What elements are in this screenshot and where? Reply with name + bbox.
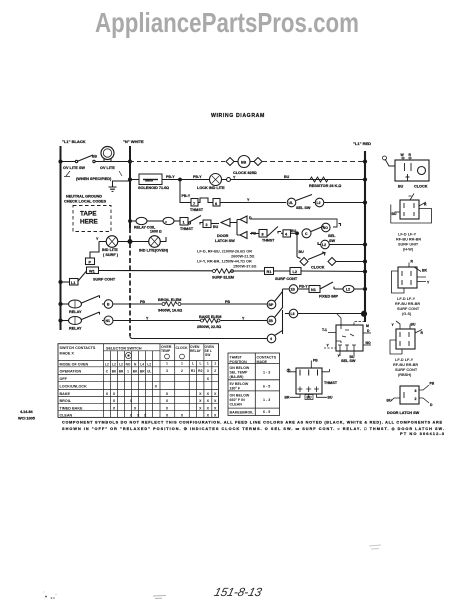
svg-text:X: X [166, 407, 169, 411]
svg-text:SELECTOR SWITCH: SELECTOR SWITCH [106, 347, 142, 351]
svg-text:X: X [155, 385, 158, 389]
svg-text:3800: 3800 [145, 179, 153, 183]
clock symbol overtemp [165, 354, 170, 359]
lamp OV LITE [101, 147, 114, 160]
svg-text:L3: L3 [291, 312, 295, 316]
tape here dashed box [73, 206, 111, 232]
contact box 4 [283, 230, 291, 237]
svg-text:L2: L2 [119, 362, 123, 366]
svg-text:SURF ELEM: SURF ELEM [212, 276, 234, 280]
svg-text:C: C [305, 232, 308, 236]
surf unit top blade [409, 194, 415, 201]
svg-text:X: X [113, 399, 116, 403]
wire hook L2 [318, 242, 321, 245]
svg-text:RF-BU RR-BR: RF-BU RR-BR [395, 302, 420, 306]
wire Y drop to P [90, 242, 99, 259]
svg-text:2600W-21.5Ω: 2600W-21.5Ω [231, 255, 255, 259]
svg-text:POSITION: POSITION [230, 360, 248, 364]
svg-text:CLOCK: CLOCK [176, 346, 189, 350]
pin NO right [363, 344, 371, 346]
svg-text:THMST: THMST [262, 239, 275, 243]
smudge right upper [369, 545, 381, 549]
svg-text:PB-Y: PB-Y [166, 175, 175, 179]
svg-text:PT NO 306412-3: PT NO 306412-3 [400, 431, 445, 436]
svg-text:1: 1 [181, 362, 183, 366]
svg-text:LF-Y, RR-BR, 1250W-44.7Ω OR: LF-Y, RR-BR, 1250W-44.7Ω OR [197, 260, 252, 264]
relay 2 [69, 317, 82, 325]
wire n bus to coil [130, 220, 136, 222]
gs top pin R [408, 263, 410, 268]
terminal 1B [289, 285, 298, 294]
inner bottom pins [298, 387, 320, 393]
svg-text:R: R [411, 260, 414, 264]
label surf cont rbsh text [393, 358, 418, 377]
thermostat box 1 [180, 218, 188, 226]
terminal L2 [315, 198, 324, 207]
clock symbol selector [126, 353, 132, 359]
switch blade BP to corner [275, 292, 283, 302]
clock dashed row y161.5 [130, 156, 367, 168]
terminal B [104, 300, 113, 309]
svg-text:3: 3 [415, 389, 417, 393]
svg-text:D: D [430, 403, 433, 407]
svg-text:L2: L2 [293, 270, 297, 274]
svg-text:6 - 5: 6 - 5 [263, 385, 270, 389]
wire surf elem main [99, 271, 366, 272]
svg-text:BAKE: BAKE [60, 392, 71, 396]
clock diamonds row y261 [297, 233, 367, 265]
diamond clock lower right [328, 258, 336, 266]
svg-text:CLOCK: CLOCK [414, 185, 428, 189]
svg-text:X: X [199, 392, 202, 396]
label surf unit text [396, 233, 421, 252]
svg-text:LF-D LF-Y: LF-D LF-Y [395, 358, 414, 362]
thermostat table text [230, 356, 277, 415]
junction L1 bus [59, 280, 62, 283]
clock inner pins [405, 163, 412, 181]
table horizontal rules [58, 361, 219, 411]
wire D upper to NO [250, 219, 337, 227]
svg-text:BU: BU [291, 229, 297, 233]
switch OV LITE SW blade [77, 155, 93, 162]
junction resistor right bus [363, 178, 366, 181]
svg-text:4: 4 [285, 233, 288, 237]
gs left bracket [392, 271, 405, 293]
dls pin 2 blade [419, 398, 429, 403]
svg-text:(G-S): (G-S) [402, 312, 412, 316]
svg-text:SEL TEMP: SEL TEMP [230, 371, 249, 375]
svg-text:UL: UL [289, 201, 294, 205]
svg-text:BR: BR [285, 396, 290, 400]
svg-text:L2: L2 [322, 243, 326, 247]
svg-text:1500W-37.6Ω: 1500W-37.6Ω [233, 265, 257, 269]
svg-text:SOLENOID 71.6Ω: SOLENOID 71.6Ω [138, 186, 169, 190]
svg-text:X: X [130, 399, 133, 403]
svg-text:OV LITE SW: OV LITE SW [63, 166, 85, 170]
diamond clock terminal right [254, 158, 262, 166]
door latch sw component [391, 385, 429, 404]
pin right [322, 369, 330, 372]
thermostat contact 8 [259, 230, 267, 238]
wire L1 to bus [61, 281, 70, 283]
svg-text:L: L [199, 362, 201, 366]
svg-text:NEUTRAL GROUND: NEUTRAL GROUND [66, 195, 102, 199]
pin R [408, 157, 412, 161]
svg-text:BK: BK [422, 269, 427, 273]
junction surf elem bus [363, 270, 366, 273]
terminal L2 sel [321, 240, 330, 249]
junction bake bus [59, 319, 62, 322]
svg-text:RELAY: RELAY [69, 327, 82, 331]
svg-text:DOOR: DOOR [217, 234, 229, 238]
svg-text:1: 1 [207, 362, 209, 366]
svg-text:BU: BU [299, 250, 305, 254]
svg-text:"L1" RED: "L1" RED [353, 141, 371, 146]
svg-text:(WHEN SPECIFIED): (WHEN SPECIFIED) [76, 177, 112, 181]
surf cont RBSH component [390, 321, 422, 354]
solenoid box [139, 174, 162, 185]
terminal BP [267, 300, 276, 309]
wire surf lamp leads [99, 241, 130, 243]
selector switch header underline [103, 350, 160, 352]
contact box N1 fixed [309, 286, 320, 293]
junction L3 bus big [361, 311, 366, 316]
svg-text:BR: BR [140, 369, 145, 373]
svg-text:BU: BU [213, 225, 219, 229]
switch sel sw blade [296, 195, 312, 201]
svg-text:OV LITE: OV LITE [100, 166, 115, 170]
solenoid row y179.5 [128, 174, 366, 186]
rbsh inner [400, 332, 409, 346]
table row labels [60, 362, 89, 417]
svg-text:N1: N1 [311, 288, 316, 292]
svg-text:X: X [113, 392, 116, 396]
table X marks [106, 377, 217, 418]
inner marks [342, 330, 354, 337]
svg-text:X: X [207, 414, 210, 418]
svg-text:2B: 2B [269, 319, 274, 323]
svg-text:AppliancePartsPros.com: AppliancePartsPros.com [95, 7, 359, 38]
svg-text:X: X [207, 377, 210, 381]
svg-text:X: X [214, 407, 217, 411]
svg-text:P: P [89, 261, 92, 265]
svg-text:L: L [192, 362, 194, 366]
junction clock right bus [363, 160, 366, 163]
svg-text:SW: SW [329, 239, 336, 243]
surf unit loop wire [391, 205, 432, 224]
L3 row y314 [285, 309, 367, 318]
pin blade top [337, 314, 341, 329]
relay 1 [69, 300, 82, 308]
svg-text:SURF CONT: SURF CONT [395, 368, 418, 372]
svg-text:2: 2 [214, 369, 216, 373]
svg-text:R1: R1 [267, 270, 272, 274]
svg-text:(RBSH): (RBSH) [398, 373, 412, 377]
specks bottom left corner [45, 596, 47, 598]
svg-text:3: 3 [207, 369, 209, 373]
svg-text:PB: PB [430, 382, 435, 386]
resistor bake [201, 319, 204, 322]
resistor surf elem [213, 270, 216, 273]
svg-text:RELAY: RELAY [69, 310, 82, 314]
terminal small circle [227, 178, 231, 182]
svg-text:2: 2 [181, 369, 183, 373]
svg-text:TEMP: TEMP [161, 349, 171, 353]
gs blade BK [414, 267, 421, 272]
sel sw component box [324, 314, 371, 356]
svg-text:Y: Y [146, 317, 149, 321]
svg-text:WIRING DIAGRAM: WIRING DIAGRAM [211, 113, 265, 119]
junction clock2 bus [363, 260, 366, 263]
wire fixed to bus [354, 288, 365, 290]
fixed-8 row y233 [250, 226, 324, 238]
rbsh Y pin top left [396, 321, 400, 329]
svg-text:N: N [134, 362, 137, 366]
wire bake line [113, 320, 263, 322]
svg-text:660° F IN: 660° F IN [230, 398, 246, 402]
switch contact table grid [58, 344, 219, 418]
clock motor circle [418, 167, 426, 175]
wattage text block [197, 250, 257, 269]
svg-text:SURF CONT: SURF CONT [93, 278, 116, 282]
svg-text:3: 3 [166, 369, 168, 373]
surf unit R blade [419, 202, 426, 206]
svg-text:(BA-BR): (BA-BR) [230, 375, 245, 379]
svg-text:B: B [107, 303, 110, 307]
svg-text:TIMED BAKE: TIMED BAKE [60, 406, 83, 410]
svg-text:IND LITE: IND LITE [102, 248, 118, 252]
diamond clock terminal left [226, 158, 234, 166]
switch blade C sel [311, 226, 324, 232]
svg-text:1600 Ω: 1600 Ω [150, 230, 162, 234]
surf unit inner pins [404, 203, 414, 216]
svg-text:SURF CONT: SURF CONT [397, 307, 420, 311]
svg-text:ON BELOW: ON BELOW [230, 394, 250, 398]
svg-text:CLOCK: CLOCK [311, 266, 325, 270]
svg-text:LF-D, RF-BU, 2100W-26.6Ω OR: LF-D, RF-BU, 2100W-26.6Ω OR [197, 250, 252, 254]
svg-text:LF-D LF-Y: LF-D LF-Y [397, 297, 416, 301]
svg-text:L2: L2 [346, 288, 350, 292]
svg-text:8: 8 [262, 233, 264, 237]
svg-text:NO: NO [366, 341, 371, 345]
pin W [401, 157, 405, 161]
pin BU bottom mid [308, 394, 310, 397]
svg-text:IND LITE(OVEN): IND LITE(OVEN) [139, 249, 169, 253]
pin D right [363, 332, 371, 334]
svg-text:Y: Y [96, 237, 99, 241]
resistor RESISTOR 26K [310, 177, 328, 182]
svg-text:X: X [214, 414, 217, 418]
svg-text:BU: BU [307, 396, 312, 400]
wire clock row dashed [130, 161, 226, 163]
svg-text:X: X [166, 392, 169, 396]
switch blade 8 [268, 227, 279, 237]
clock symbol clockcol [180, 354, 185, 359]
terminal C [302, 229, 311, 238]
svg-text:X: X [207, 399, 210, 403]
clock hook wire [385, 159, 395, 166]
clock component detail [383, 156, 430, 181]
terminal N1 bake [104, 316, 113, 325]
svg-text:SEL SW: SEL SW [341, 359, 356, 363]
svg-text:UL: UL [147, 369, 151, 373]
svg-text:BROIL: BROIL [60, 399, 72, 403]
svg-text:DOOR LATCH SW: DOOR LATCH SW [387, 411, 420, 415]
lamp clock BB [238, 156, 250, 168]
svg-text:SEL: SEL [328, 234, 336, 238]
junction broil bus [59, 302, 62, 305]
door latch triangle [221, 219, 230, 227]
svg-text:1: 1 [183, 221, 185, 225]
svg-text:L2: L2 [112, 362, 116, 366]
svg-text:Y: Y [427, 281, 430, 285]
resistor broil [162, 303, 165, 306]
D triangle lower [237, 232, 247, 239]
svg-text:4.14.84: 4.14.84 [20, 410, 34, 414]
svg-text:SEL SW: SEL SW [296, 206, 311, 210]
svg-text:THMST: THMST [180, 227, 194, 231]
surf elem row y271.5 [59, 221, 367, 285]
svg-text:BU: BU [328, 396, 333, 400]
svg-text:X: X [106, 392, 109, 396]
pin T-1 [328, 333, 341, 344]
junction ind lite n bus [128, 240, 132, 244]
wire broil line [113, 303, 267, 305]
wire N white bus top [129, 146, 131, 228]
wire ov lite row [61, 161, 131, 163]
wire bus into sel sw [354, 322, 365, 326]
junction drop point [179, 178, 182, 181]
terminal 4 circ [267, 334, 276, 343]
svg-text:RF-BU RR-BR: RF-BU RR-BR [396, 238, 421, 242]
svg-text:X: X [181, 414, 184, 418]
svg-text:Y: Y [392, 323, 395, 327]
svg-text:180° F: 180° F [230, 387, 241, 391]
junction L2 bus [363, 243, 366, 246]
pin Y bottom left [324, 347, 336, 349]
svg-text:L1: L1 [71, 281, 75, 285]
svg-text:BP: BP [269, 303, 274, 307]
wire oven lamp leads [130, 221, 166, 242]
svg-text:1 - 3: 1 - 3 [263, 371, 270, 375]
svg-text:1: 1 [214, 362, 216, 366]
svg-text:2: 2 [415, 397, 417, 401]
svg-text:BB: BB [92, 155, 97, 159]
relay coil row y221 [129, 216, 247, 239]
svg-text:X: X [207, 407, 210, 411]
svg-text:C: C [106, 369, 109, 373]
wire N bus turn right to pin 4 [130, 336, 264, 339]
pin BU bottom right [317, 394, 328, 397]
bake row y320.5 [59, 289, 283, 343]
svg-text:X: X [199, 399, 202, 403]
svg-text:1 - 3: 1 - 3 [263, 398, 270, 402]
wire solenoid row [130, 179, 365, 181]
pin C left [289, 369, 297, 372]
svg-text:X: X [137, 414, 140, 418]
wire 282 corner to 1B [283, 288, 290, 290]
svg-text:L2: L2 [317, 201, 321, 205]
svg-text:X: X [166, 414, 169, 418]
svg-text:MODE OF OVEN: MODE OF OVEN [60, 362, 89, 366]
wire thmst to sel sw [220, 202, 286, 204]
svg-text:THMST: THMST [190, 208, 204, 212]
svg-text:X: X [144, 414, 147, 418]
broil row y304 [59, 292, 283, 309]
svg-text:BU: BU [411, 323, 416, 327]
surf unit component [391, 194, 432, 224]
svg-text:RESISTOR 26 K.Ω: RESISTOR 26 K.Ω [309, 184, 341, 188]
contact box W1 [87, 267, 99, 274]
lamp IND LITE SURF [106, 236, 118, 248]
svg-text:X: X [134, 407, 137, 411]
svg-text:BU: BU [284, 175, 290, 179]
svg-text:SW: SW [205, 353, 211, 357]
contact box L2 surf [290, 268, 301, 275]
svg-text:3400W, 16.6Ω: 3400W, 16.6Ω [158, 309, 182, 313]
rbsh BU pin top [409, 325, 411, 330]
svg-text:Y: Y [327, 344, 330, 348]
svg-text:TAPE: TAPE [80, 211, 97, 218]
callout lines when specified [64, 171, 122, 177]
switch blade relay1 [82, 296, 100, 304]
svg-text:M: M [366, 324, 369, 328]
inner top pins 1 2 3 [300, 370, 318, 376]
switch blade 2B [275, 308, 283, 318]
surf cont GS component [392, 263, 427, 294]
svg-text:BB: BB [241, 161, 247, 165]
svg-text:D: D [367, 329, 370, 333]
junction n bus ov row [128, 160, 131, 163]
svg-text:"N" WHITE: "N" WHITE [123, 139, 144, 144]
svg-text:CLOCK 825Ω: CLOCK 825Ω [233, 171, 257, 175]
svg-text:1: 1 [127, 369, 129, 373]
svg-text:LOCK IND LITE: LOCK IND LITE [197, 186, 225, 190]
svg-text:BK: BK [112, 369, 117, 373]
rbsh R blade right [415, 330, 422, 334]
svg-text:Y: Y [242, 317, 245, 321]
svg-text:X: X [130, 414, 133, 418]
svg-text:BU: BU [392, 212, 397, 216]
wire clock row right dashed [262, 161, 365, 163]
svg-text:5V BELOW: 5V BELOW [230, 382, 249, 386]
svg-text:X: X [214, 392, 217, 396]
contact box L1 [70, 279, 79, 286]
svg-text:LOCK/UNLOCK: LOCK/UNLOCK [60, 384, 88, 388]
dls left pin BU [391, 398, 400, 401]
svg-text:(H-W): (H-W) [403, 248, 414, 252]
svg-text:W: W [401, 153, 405, 157]
pin BR bottom left [290, 394, 300, 397]
thermostat contact 7 [191, 199, 198, 207]
svg-text:PB-Y: PB-Y [299, 285, 308, 289]
thermostat contact 6 [213, 199, 220, 207]
svg-text:RELAY: RELAY [190, 349, 202, 353]
gs inner [402, 271, 411, 285]
svg-text:HERE: HERE [80, 219, 98, 226]
svg-text:MADE X: MADE X [60, 352, 75, 356]
svg-text:CLEAN: CLEAN [230, 403, 243, 407]
svg-text:2500W, 22.5Ω: 2500W, 22.5Ω [197, 325, 221, 329]
svg-text:CHECK LOCAL CODES: CHECK LOCAL CODES [64, 200, 107, 204]
svg-text:FIXED IMP: FIXED IMP [319, 295, 338, 299]
wire N white bus dashed lower [129, 228, 131, 336]
lamp LOCK IND LITE [210, 174, 222, 186]
svg-text:CLEAN: CLEAN [60, 413, 73, 417]
svg-text:BK: BK [133, 369, 138, 373]
contact box R1 [265, 268, 274, 275]
wire hook L [200, 223, 203, 225]
